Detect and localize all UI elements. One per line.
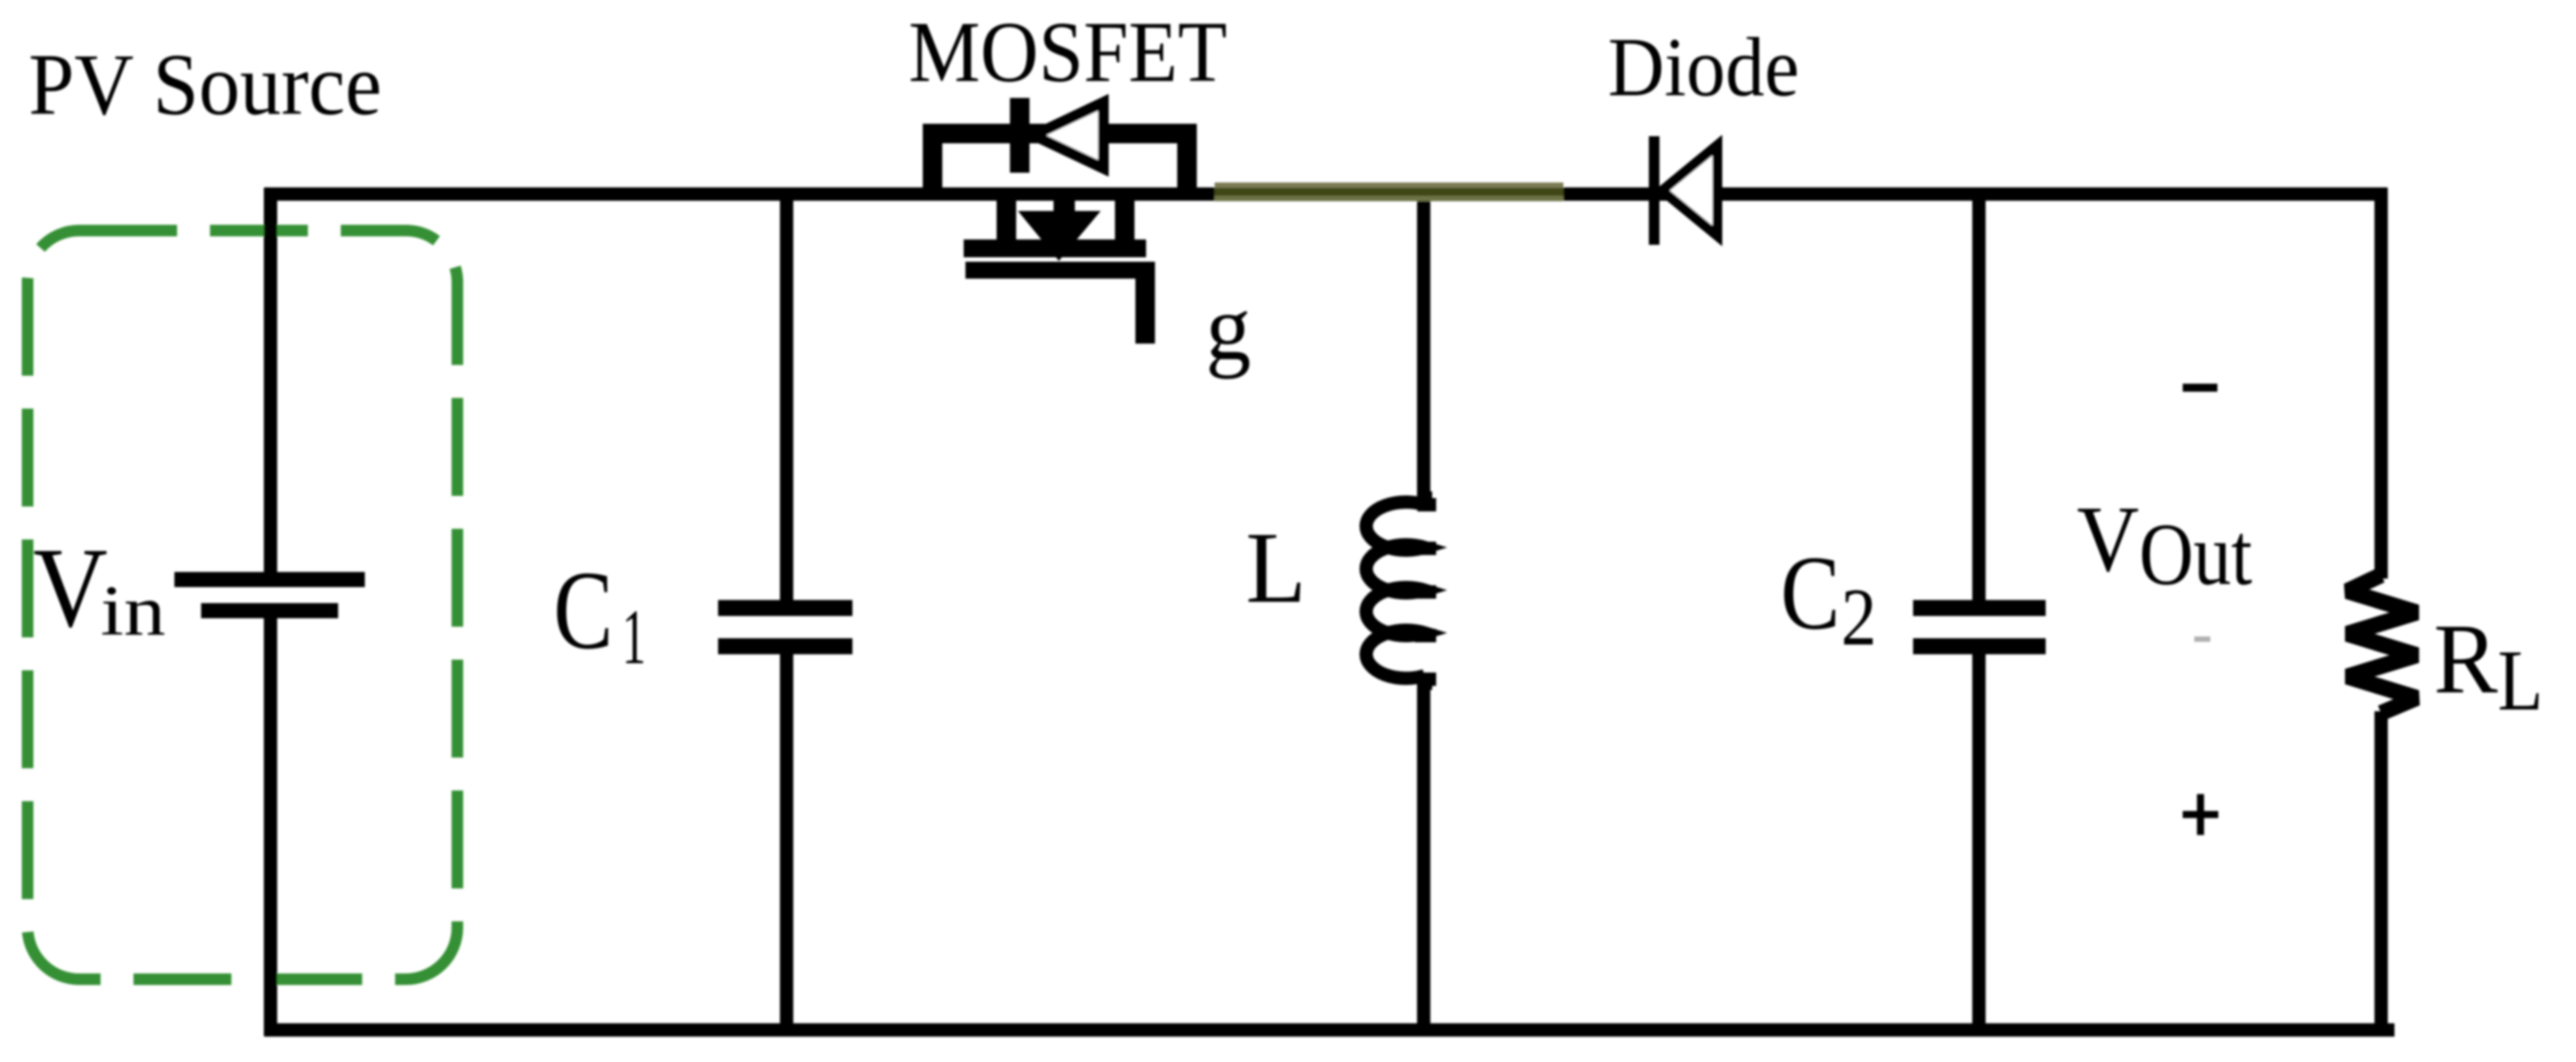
svg-text:1: 1 xyxy=(622,595,646,681)
svg-text:g: g xyxy=(1206,275,1251,379)
svg-text:C: C xyxy=(553,549,613,673)
svg-text:Out: Out xyxy=(2139,505,2252,604)
svg-text:L: L xyxy=(1246,511,1306,624)
svg-text:MOSFET: MOSFET xyxy=(908,4,1227,101)
svg-text:V: V xyxy=(2077,487,2139,591)
svg-text:Diode: Diode xyxy=(1608,21,1799,114)
svg-text:PV Source: PV Source xyxy=(28,36,382,134)
svg-text:R: R xyxy=(2434,604,2498,715)
svg-text:in: in xyxy=(101,572,166,651)
svg-text:2: 2 xyxy=(1841,572,1877,662)
svg-text:V: V xyxy=(33,524,108,651)
svg-text:L: L xyxy=(2498,633,2543,728)
svg-text:C: C xyxy=(1781,534,1840,652)
